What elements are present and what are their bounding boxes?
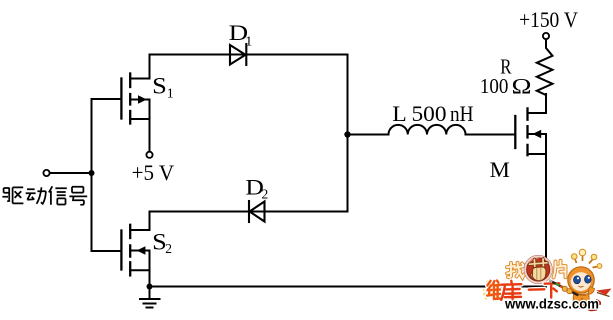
- eyes: [574, 276, 581, 284]
- svg-text:2: 2: [262, 187, 269, 202]
- pen: [549, 280, 578, 295]
- label 驱动信号: [2, 186, 87, 205]
- terminal +5V: [146, 152, 152, 158]
- svg-text:M: M: [490, 157, 510, 182]
- 芯 fist inside: [530, 259, 548, 281]
- wire top rail: [150, 54, 348, 56]
- watermark pen: [549, 280, 578, 295]
- svg-text:S: S: [152, 74, 167, 99]
- wire junction to inductor: [348, 134, 389, 136]
- watermark 维库一下: [487, 281, 559, 301]
- svg-text:L: L: [392, 101, 407, 126]
- wire D2 rail: [150, 211, 348, 213]
- svg-text:+150 V: +150 V: [519, 7, 578, 32]
- wire bottom rail: [150, 286, 547, 288]
- svg-text:1: 1: [245, 34, 252, 49]
- transistor S1: [121, 74, 130, 124]
- inductor L: [389, 125, 466, 135]
- diode D1: [230, 44, 246, 65]
- body: [573, 293, 589, 309]
- diode D2: [249, 201, 265, 222]
- input terminal: [43, 170, 49, 176]
- hands: [562, 286, 567, 291]
- wire inductor to M gate: [466, 134, 515, 136]
- transistor M: [515, 108, 527, 155]
- watermark glyph 找: [507, 263, 524, 278]
- watermark mascot: [568, 249, 612, 311]
- wire S1 drain riser: [149, 55, 151, 79]
- node ground junction: [147, 284, 153, 290]
- wire gate bus vertical: [91, 99, 93, 251]
- svg-text:2: 2: [165, 241, 172, 256]
- terminal +150V: [543, 33, 549, 39]
- node gate bus junction: [89, 170, 95, 176]
- wire M drain to resistor: [545, 94, 547, 113]
- watermark sparkles: [483, 280, 489, 299]
- wire M source down: [545, 154, 547, 287]
- resistor R: [537, 39, 553, 95]
- svg-text:Ω: Ω: [512, 73, 532, 98]
- svg-text:+5 V: +5 V: [132, 160, 175, 185]
- node inductor junction: [344, 131, 350, 137]
- transistor S2: [121, 225, 130, 276]
- wire right riser: [347, 55, 349, 212]
- ground: [140, 287, 160, 308]
- wire S2 source down: [149, 270, 151, 286]
- svg-text:100: 100: [480, 74, 509, 98]
- watermark dzsc: [483, 249, 612, 311]
- mouth: [579, 286, 584, 287]
- wire S1 source to +5V: [149, 119, 151, 152]
- wire S1 gate lead: [92, 98, 121, 100]
- head: [568, 267, 594, 293]
- svg-text:1: 1: [167, 87, 174, 102]
- wire S2 drain riser: [149, 212, 151, 231]
- watermark glyph 片: [554, 261, 566, 278]
- watermark magnifier: [524, 256, 552, 284]
- svg-text:500: 500: [412, 101, 447, 126]
- wire input to bus: [50, 172, 92, 174]
- antennae: [575, 259, 577, 264]
- feet: [588, 306, 598, 311]
- svg-text:www.dzsc.com: www.dzsc.com: [504, 296, 599, 312]
- red tool right: [596, 289, 612, 296]
- svg-text:nH: nH: [450, 101, 474, 126]
- wire S2 gate lead: [92, 250, 121, 252]
